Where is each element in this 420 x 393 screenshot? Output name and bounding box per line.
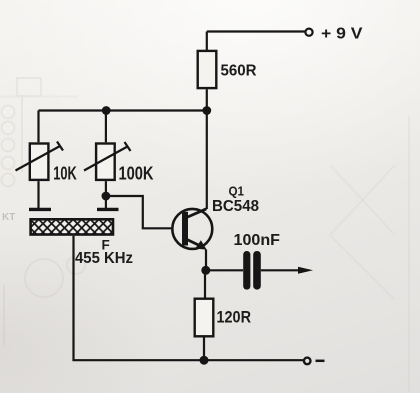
ceramic filter F1 body xyxy=(31,219,113,234)
capacitor C1 plate 1 xyxy=(243,251,250,290)
filter left terminal bar xyxy=(29,208,51,211)
svg-text:100K: 100K xyxy=(119,163,154,183)
wire top rail xyxy=(39,109,207,111)
svg-text:Q1: Q1 xyxy=(229,184,245,199)
wire R3 bottom to filter xyxy=(105,181,107,208)
trimmer R2 arrow xyxy=(16,146,61,171)
output arrowhead xyxy=(298,267,313,274)
trimmer R3 100K body xyxy=(96,144,115,180)
svg-text:10K: 10K xyxy=(53,163,77,183)
transistor Q1 circle xyxy=(172,209,212,249)
wire to R1 top xyxy=(206,32,208,51)
wire rail to R3 top xyxy=(105,111,107,143)
label minus sign xyxy=(316,360,325,363)
resistor R1 560R xyxy=(198,51,217,88)
wire emitter node to R4 xyxy=(204,270,206,297)
wire rail to R2 top xyxy=(37,111,39,143)
svg-text:100nF: 100nF xyxy=(234,232,281,249)
svg-text:+ 9 V: + 9 V xyxy=(321,26,363,43)
svg-text:560R: 560R xyxy=(221,63,257,80)
trimmer R2 arrow tick xyxy=(57,142,63,151)
wire R1 bottom to transistor collector xyxy=(206,89,208,209)
trimmer R3 arrow tick xyxy=(125,142,131,151)
svg-text:BC548: BC548 xyxy=(212,198,259,215)
transistor Q1 emitter arrowhead xyxy=(195,240,206,249)
trimmer R3 arrow xyxy=(84,147,128,171)
svg-text:120R: 120R xyxy=(217,309,252,327)
junction dot emitter node xyxy=(201,266,210,275)
transistor Q1 emitter stroke xyxy=(187,239,201,246)
transistor Q1 collector stroke xyxy=(187,209,207,218)
svg-text:KT: KT xyxy=(2,212,15,223)
svg-text:455 KHz: 455 KHz xyxy=(75,250,133,267)
wire +9V horizontal xyxy=(207,30,305,32)
filter right terminal bar xyxy=(97,208,119,211)
trimmer R2 10K body xyxy=(30,144,49,180)
junction dot on top rail xyxy=(102,106,111,115)
junction dot ground rail xyxy=(200,356,209,365)
wire base of Q1 xyxy=(106,196,171,228)
wire C1 to output xyxy=(261,269,300,271)
junction dot node base xyxy=(102,192,111,201)
terminal +9V (open circle) xyxy=(305,29,312,36)
wire R2 bottom to filter xyxy=(37,181,39,208)
transistor Q1 base bar xyxy=(182,212,188,246)
wire R4 bottom to rail xyxy=(203,338,205,361)
terminal minus (open circle) xyxy=(304,358,311,365)
capacitor C1 plate 2 xyxy=(253,251,261,290)
junction dot below R1 xyxy=(202,106,211,115)
wire filter bottom to ground rail xyxy=(74,236,304,360)
resistor R4 120R xyxy=(195,299,214,337)
wire emitter node to C1 xyxy=(206,269,243,271)
wire emitter down xyxy=(205,250,207,271)
background bleed-through ghosts (decorative) xyxy=(0,78,85,345)
